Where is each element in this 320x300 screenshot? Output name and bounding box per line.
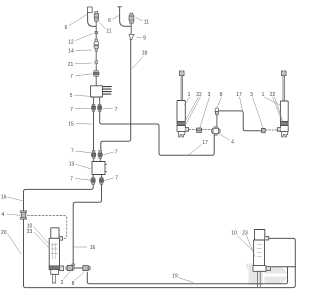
leader 23 bottom-right bbox=[247, 236, 256, 257]
svg-text:7: 7 bbox=[70, 176, 73, 182]
nut 12 bbox=[95, 31, 98, 33]
hose 6 right (curved) bbox=[120, 7, 131, 27]
cross fitting 4 bbox=[212, 127, 221, 136]
leader 7 block13 bottom-right bbox=[105, 178, 114, 181]
cylinder 10 bottom-left: top port right bbox=[59, 237, 63, 241]
cylinder 1 left-top: body bbox=[177, 101, 185, 122]
wire below fitting 11 left bbox=[95, 21, 97, 31]
svg-text:3: 3 bbox=[250, 92, 253, 98]
svg-text:7: 7 bbox=[115, 176, 118, 182]
cylinder 10 bottom-left: rod bbox=[52, 274, 56, 283]
leader 10 bottom-right bbox=[237, 236, 254, 253]
svg-text:3: 3 bbox=[208, 92, 211, 98]
fitting 9 bbox=[129, 34, 134, 39]
leader 6 left bbox=[69, 15, 87, 26]
leader 19 bbox=[179, 278, 194, 283]
leader 7 block13 top-left bbox=[76, 151, 92, 153]
svg-text:18: 18 bbox=[142, 51, 148, 57]
cylinder 1 right-top: rod eye bbox=[281, 71, 286, 76]
leader 10 bottom-left bbox=[34, 227, 49, 244]
elbow 8 bottom-left bbox=[83, 266, 90, 271]
leader 7 block5 left bbox=[75, 107, 90, 109]
leader 21 bbox=[75, 62, 92, 65]
leader 4 cross bbox=[219, 134, 230, 141]
coupling 21 bbox=[95, 61, 98, 64]
leader lines bbox=[7, 15, 283, 283]
leader 7 block5 right bbox=[103, 107, 113, 109]
leader 11 left bbox=[100, 23, 106, 30]
cylinder 10 bottom-right: rod bbox=[258, 271, 261, 287]
leader 11 right bbox=[136, 18, 143, 21]
cylinder 1 right-top: rod bbox=[283, 76, 284, 101]
leader 7 block13 bottom-left bbox=[76, 178, 92, 180]
svg-text:20: 20 bbox=[1, 230, 7, 236]
svg-text:1: 1 bbox=[262, 92, 265, 98]
cylinder 1 left-top: rod eye bbox=[179, 71, 184, 76]
cylinder 1 left-top: rod bbox=[181, 76, 182, 101]
svg-text:19: 19 bbox=[172, 274, 178, 280]
leader 13 bbox=[76, 164, 90, 169]
leader 18 bbox=[133, 57, 144, 69]
cylinder 1 left-top: gland band 22 bbox=[177, 122, 185, 126]
hose 20 (block 13 to left edge, down, along bottom, up to top port of bottom-right cylinder) bbox=[24, 185, 296, 288]
svg-text:17: 17 bbox=[202, 140, 208, 146]
cylinder 10 bottom-left: inner detail bbox=[51, 243, 58, 259]
svg-text:23: 23 bbox=[242, 231, 248, 237]
svg-text:8: 8 bbox=[72, 281, 75, 287]
bracket at top left bbox=[88, 7, 93, 13]
leader 9 bbox=[137, 36, 141, 38]
leader 22 right row bbox=[273, 97, 284, 123]
cylinder 1 right-top: body bbox=[280, 101, 288, 122]
watermark logo bbox=[246, 264, 289, 286]
svg-text:17: 17 bbox=[236, 92, 242, 98]
leader 8 bottom bbox=[75, 273, 85, 281]
cylinder 10 bottom-right: body bbox=[254, 240, 265, 266]
dashed link left cylinder to nut 3 bbox=[189, 128, 196, 130]
leader 22 left row bbox=[185, 97, 201, 124]
leader 20 bbox=[8, 234, 22, 255]
cylinder 10 bottom-right: port block bbox=[253, 266, 266, 272]
wire below fitting 11 right bbox=[130, 23, 133, 40]
fitting 7 block13 bottom-left bbox=[91, 177, 95, 184]
block 13 bbox=[92, 162, 105, 175]
leader 2 bbox=[64, 272, 71, 280]
wire to block 5 bbox=[95, 76, 97, 85]
cylinder 10 bottom-right: bottom port right bbox=[266, 266, 270, 270]
svg-text:6: 6 bbox=[108, 18, 111, 24]
svg-text:7: 7 bbox=[115, 150, 118, 156]
leader 3 right row bbox=[253, 97, 264, 128]
svg-text:6: 6 bbox=[65, 25, 68, 31]
hose 6 left (curved) bbox=[88, 13, 96, 27]
block 13 side marks bbox=[105, 165, 107, 172]
svg-text:22: 22 bbox=[270, 92, 276, 98]
leader 17 bottom bbox=[188, 145, 202, 157]
cylinder 10 bottom-left: bottom cap bbox=[51, 270, 59, 275]
cylinder 1 left-top: port fitting right bbox=[185, 128, 188, 132]
tee 4 on left hose bbox=[20, 211, 26, 220]
block 5 side stack bbox=[103, 87, 111, 95]
cylinder 1 left-top: clevis bbox=[179, 132, 185, 137]
hose 15 (block 5 right fitting to cross fitting 4) bbox=[100, 112, 215, 156]
fitting 11 right bbox=[129, 13, 134, 23]
svg-text:11: 11 bbox=[144, 20, 149, 26]
wire: left vertical from block 5 left fitting to block 13 bbox=[93, 112, 95, 151]
leader 5 bbox=[75, 95, 92, 96]
svg-text:13: 13 bbox=[69, 162, 75, 168]
svg-text:23: 23 bbox=[27, 229, 33, 235]
cylinder 1 right-top: port block bbox=[280, 126, 288, 132]
fitting 7 below block 5 right bbox=[98, 104, 102, 111]
svg-text:7: 7 bbox=[71, 149, 74, 155]
svg-text:5: 5 bbox=[70, 93, 73, 99]
fitting 7 block13 bottom-right bbox=[99, 177, 103, 184]
dashed run from tee 4 to bottom-left cylinder top port bbox=[28, 216, 67, 239]
svg-text:4: 4 bbox=[2, 212, 5, 218]
block 5 to fittings stubs bbox=[94, 97, 100, 104]
svg-text:8: 8 bbox=[220, 92, 223, 98]
leader 7 block13 top-right bbox=[104, 152, 114, 155]
cylinder 1 right-top: clevis bbox=[282, 132, 288, 137]
svg-text:7: 7 bbox=[115, 107, 118, 113]
link tee 2 to elbow 8 bbox=[74, 267, 82, 269]
nut 3 left bbox=[197, 128, 202, 132]
cylinder 10 bottom-right: top port right bbox=[265, 236, 269, 240]
fitting 7 above block 5 bbox=[93, 71, 99, 77]
fitting 7 block13 top-left bbox=[92, 150, 96, 158]
svg-text:15: 15 bbox=[68, 122, 74, 128]
svg-text:4: 4 bbox=[231, 140, 234, 146]
fitting 7 block13 top-right bbox=[98, 150, 102, 158]
svg-text:11: 11 bbox=[106, 29, 111, 35]
bottom port branch line of bottom-right cylinder bbox=[272, 266, 296, 268]
cylinder 1 right-top: port fitting left bbox=[277, 128, 280, 132]
svg-text:10: 10 bbox=[231, 231, 237, 237]
svg-text:14: 14 bbox=[68, 49, 74, 55]
svg-text:22: 22 bbox=[196, 92, 202, 98]
fitting 7 below block 5 left bbox=[92, 104, 96, 111]
hose 19 (elbow 8 at bottom-left cylinder to riser near bottom-right cylinder) bbox=[87, 267, 287, 284]
hose 18 (fitting 9 down to block 13 top right fitting) bbox=[101, 40, 131, 151]
svg-text:7: 7 bbox=[70, 74, 73, 80]
svg-text:16: 16 bbox=[90, 245, 96, 251]
cylinder 10 bottom-right: top cap bbox=[255, 230, 265, 241]
dashed link nut 3 to cross 4 bbox=[202, 128, 212, 130]
leader 1 right row bbox=[265, 97, 281, 106]
leader 3 left row bbox=[200, 97, 210, 127]
leader 7 upper bbox=[76, 74, 93, 76]
svg-text:1: 1 bbox=[188, 92, 191, 98]
leader 15 bbox=[76, 123, 92, 125]
cylinder 10 bottom-right: inner detail bbox=[257, 245, 261, 257]
valve block 5 bbox=[91, 86, 103, 97]
svg-text:21: 21 bbox=[68, 62, 74, 68]
svg-text:9: 9 bbox=[143, 35, 146, 41]
svg-text:12: 12 bbox=[68, 40, 74, 46]
svg-text:7: 7 bbox=[70, 107, 73, 113]
dashed link to right cylinder port bbox=[266, 129, 277, 131]
svg-text:16: 16 bbox=[1, 195, 7, 201]
fitting 11 left bbox=[94, 11, 99, 21]
valve 14 bbox=[94, 39, 98, 51]
elbow 8 (above cross) bbox=[215, 108, 219, 127]
tick top of right assembly bbox=[118, 6, 122, 8]
wire below valve 14 bbox=[95, 51, 97, 70]
cylinder 1 left-top: port block bbox=[177, 126, 185, 132]
leader 23 bottom-left bbox=[34, 232, 49, 248]
cylinder 10 bottom-left: bottom port right bbox=[60, 266, 64, 271]
leader 14 bbox=[76, 49, 93, 52]
block 13 stubs bbox=[93, 159, 101, 178]
leader 1 left row bbox=[184, 97, 189, 106]
leader 16 left bbox=[8, 197, 23, 201]
leader 4 left bbox=[7, 214, 20, 215]
fitting at end of hose 17 bbox=[262, 128, 266, 132]
cylinder 1 right-top: gland band 22 bbox=[280, 122, 288, 126]
cylinder 10 bottom-left: lower band bbox=[49, 266, 59, 270]
leader 16 mid bbox=[74, 246, 87, 248]
hose 17 top (elbow 8 to fitting at right cylinder) bbox=[220, 111, 262, 131]
leader 12 bbox=[76, 34, 93, 41]
leader 17 top row bbox=[240, 97, 244, 115]
hose 16 (block 13 bottom right fitting down to tee 2) bbox=[73, 185, 101, 265]
leader 8 top row bbox=[218, 97, 222, 107]
wire to valve 14 bbox=[95, 34, 97, 39]
leader 6 right bbox=[113, 16, 120, 20]
cylinder 10 bottom-left: body bbox=[49, 238, 59, 269]
svg-text:2: 2 bbox=[61, 280, 64, 286]
cylinder 10 bottom-left: top cap bbox=[51, 228, 59, 239]
tee 2 bbox=[66, 264, 75, 271]
